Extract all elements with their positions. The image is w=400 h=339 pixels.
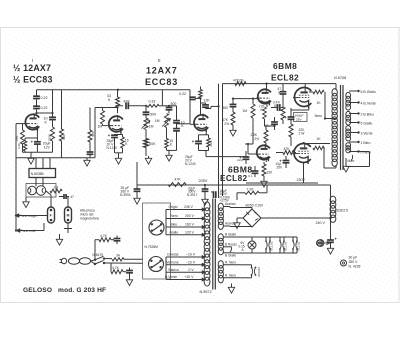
phono jack crystal [65, 207, 72, 223]
svg-text:6BM8: 6BM8 [273, 61, 297, 71]
resistor 2.2K splitter [208, 135, 210, 138]
svg-text:150: 150 [267, 171, 273, 175]
svg-text:Nero: Nero [315, 114, 322, 118]
capacitor 20uF 12V cathode bypass [36, 138, 38, 142]
svg-text:ECC83: ECC83 [257, 267, 261, 277]
wire U4b bottom [303, 163, 305, 184]
ground output stage [263, 176, 265, 179]
potentiometer 1M tone2 [168, 110, 170, 114]
transformer PT secondary heater coil [218, 261, 223, 269]
wire bridge AC bottom [230, 226, 252, 228]
wire bridge AC top [230, 207, 252, 209]
capacitor 16uF 350V [211, 191, 214, 193]
svg-text:4.7K: 4.7K [100, 234, 108, 238]
wire long vertical B [222, 84, 224, 196]
svg-text:4.7K: 4.7K [112, 266, 120, 270]
wire splitter top entry [200, 87, 202, 90]
resistor 220K below cap [52, 120, 54, 127]
svg-text:N.8036B: N.8036B [31, 172, 45, 176]
transformer PT core [212, 199, 214, 290]
svg-text:240 V: 240 V [316, 221, 326, 225]
capacitor 47K ecl [271, 121, 278, 123]
transformer PT secondary HT coil [218, 203, 223, 210]
resistor 2.2K 2% fb [264, 130, 268, 143]
transformer OT core [340, 85, 342, 170]
wire secondary B Giallo 2 [223, 252, 234, 254]
pentode U4a [295, 88, 312, 107]
svg-text:N.8475: N.8475 [93, 253, 104, 257]
resistor 1K grid stopper upper [309, 91, 313, 93]
node bus stage2 [117, 89, 119, 91]
heater ECL82 no1 [265, 237, 267, 241]
ground OT [345, 158, 347, 164]
wire input bus vertical [15, 124, 17, 231]
wire B+ rail 205V [137, 184, 331, 186]
label 30uF 350V N.4228 [341, 260, 347, 266]
capacitor 25uF V2 [195, 140, 202, 142]
wire U3a plate lead [266, 84, 268, 89]
wire bus to 47K cap [267, 83, 306, 85]
ground bridge [236, 221, 238, 223]
svg-text:N.3904: N.3904 [120, 193, 131, 197]
wire heater rail bottom [234, 252, 297, 254]
heater ECL82 no2 [279, 237, 281, 241]
resistor 15K tone2 [166, 128, 168, 139]
ground tone2 [168, 153, 170, 155]
wire rail to choke [330, 185, 332, 198]
svg-text:2%: 2% [224, 122, 229, 126]
transformer OT secondary coil 4 [346, 143, 351, 147]
wire stage2 left column down [94, 108, 96, 158]
wire grid V1b [103, 125, 108, 127]
capacitor filter upper [114, 238, 121, 240]
svg-text:ECL82: ECL82 [271, 73, 299, 83]
svg-text:0.22: 0.22 [179, 92, 186, 96]
svg-text:B.Verde: B.Verde [165, 275, 177, 279]
capacitor 22uF [243, 156, 250, 158]
wire plate node junction [37, 112, 53, 114]
svg-text:47K2%: 47K2% [233, 78, 244, 82]
resistor 150 cathode [262, 164, 266, 176]
svg-text:32Ω/2.5: 32Ω/2.5 [336, 209, 348, 213]
wire OT tap 5 Giallo [349, 122, 359, 124]
wire secondary Arancio 1 [223, 206, 230, 208]
svg-text:B Giallo: B Giallo [225, 254, 236, 258]
svg-text:+10 V: +10 V [185, 275, 195, 279]
wire grid row triode A [233, 98, 258, 100]
svg-text:500: 500 [150, 113, 156, 117]
triode U3a [258, 89, 271, 103]
node triode A plate [265, 83, 267, 85]
capacitor tone second small [176, 123, 178, 128]
wire cathodes join U4a [290, 108, 292, 111]
svg-text:5 B.Giallo: 5 B.Giallo [361, 90, 376, 94]
wire tone box right vertical [189, 90, 191, 124]
wire fono bus magn [16, 215, 48, 217]
svg-text:6BM8: 6BM8 [228, 165, 253, 175]
wire long vertical A [218, 84, 220, 198]
input switch surround box [26, 184, 56, 198]
wire 220 to 230V rail [290, 144, 292, 146]
svg-text:N. 4228: N. 4228 [349, 265, 361, 269]
svg-text:4 B.Verde: 4 B.Verde [361, 101, 376, 105]
svg-text:Bleu: Bleu [171, 223, 178, 227]
wire plate U4a to OT [305, 83, 336, 85]
resistor 16K grid leak [22, 124, 24, 130]
voltage selector box [143, 203, 171, 279]
selector plug upper [149, 220, 164, 235]
mains switch [94, 259, 96, 261]
ground PT [231, 284, 233, 286]
svg-text:½ ECC83: ½ ECC83 [13, 75, 53, 85]
resistor 15K cathode V1b [122, 135, 124, 138]
svg-text:25V: 25V [296, 117, 302, 121]
svg-text:500: 500 [171, 102, 177, 106]
wire secondary Arancio 2 [223, 225, 230, 227]
wire OT tap 0 Nero [349, 151, 359, 153]
label Fono magn [16, 214, 19, 217]
svg-text:1 Bleu: 1 Bleu [361, 141, 371, 145]
wire plate column stage1 [36, 90, 38, 96]
wire fb join [264, 119, 266, 126]
wire tone output to grid [177, 123, 191, 125]
ground ecl input [232, 128, 234, 130]
capacitor 47K coupling [118, 105, 124, 107]
wire tap Nero 200V [166, 218, 202, 220]
mains twisted cord [68, 258, 79, 265]
resistor 0.33 [147, 104, 159, 107]
svg-text:.47: .47 [70, 195, 75, 199]
svg-text:33K: 33K [62, 135, 66, 140]
svg-text:magnetofono: magnetofono [80, 217, 99, 221]
wire 230V node [246, 182, 318, 184]
triode V1a [25, 114, 39, 129]
wire secondary R Nero 2 [223, 277, 240, 279]
wire OT tap 2 B.Bleu [349, 113, 359, 115]
svg-text:B Giallo: B Giallo [225, 233, 236, 237]
ground V1b cathode [118, 156, 120, 158]
svg-text:N.7528M: N.7528M [145, 245, 159, 249]
svg-text:50K: 50K [149, 142, 156, 146]
svg-text:II: II [158, 58, 161, 63]
svg-text:−10 V: −10 V [186, 253, 196, 257]
svg-text:Arancio: Arancio [225, 202, 236, 206]
resistor 4.7K filter lower [111, 270, 123, 274]
capacitor 0.22 upper [33, 95, 40, 97]
switch circle right [36, 186, 45, 195]
svg-text:ECL82: ECL82 [296, 241, 300, 250]
wire plate out to A [206, 108, 212, 110]
svg-text:16K: 16K [15, 136, 19, 141]
svg-text:2.2K: 2.2K [209, 140, 213, 146]
resistor 15K cathode U3a [266, 105, 268, 108]
node 205V [204, 184, 206, 186]
svg-text:25V: 25V [276, 166, 283, 170]
wire secondary B Rosso [223, 246, 232, 248]
wire secondary R Nero 1 [223, 264, 240, 266]
wire secondary B Giallo 1 [223, 236, 234, 238]
resistor 1M grid V1b [101, 111, 105, 125]
svg-text:2 B.Bleu: 2 B.Bleu [361, 112, 374, 116]
bridge rectifier B250 C100 [243, 209, 261, 227]
capacitor 500 second [166, 107, 173, 109]
switch circle left [28, 186, 37, 195]
capacitor 47 input [63, 194, 65, 199]
transformer PT secondary 6V coil [218, 234, 223, 241]
wire OT tap 5 B.Giallo [349, 90, 359, 92]
svg-text:1M: 1M [149, 125, 154, 129]
wires box to circuit [35, 158, 37, 169]
svg-text:47K: 47K [284, 147, 291, 151]
wire tap Bleu 160V [166, 226, 202, 228]
ground input switch [25, 197, 27, 200]
svg-text:ECL82: ECL82 [283, 241, 287, 250]
heater ECC83 preamp [240, 264, 252, 266]
wire OT bottom connection [335, 165, 337, 168]
capacitor 10K tone [169, 105, 177, 107]
wire tap Celeste -10V [166, 256, 202, 258]
svg-text:ECC83: ECC83 [145, 77, 178, 87]
svg-text:N.3917: N.3917 [187, 193, 198, 197]
wire OT tap 1 Bleu [349, 141, 359, 143]
ground jacks [59, 234, 61, 237]
svg-text:R. Nero: R. Nero [225, 260, 236, 264]
svg-text:0.22: 0.22 [41, 106, 48, 110]
svg-text:47K: 47K [175, 178, 182, 182]
capacitor 25uF cathode V1b [120, 132, 122, 135]
wire jacks up [50, 195, 52, 207]
svg-text:22K: 22K [204, 99, 211, 103]
capacitor 47 K screen [282, 84, 284, 92]
potentiometer 1M tone1 [145, 115, 147, 119]
wire OT center tap Nero [325, 118, 336, 120]
wire fono bus crist [16, 230, 44, 232]
wire OT tap 3 Verde [349, 132, 359, 134]
svg-text:M: M [67, 214, 70, 218]
heater ECL82 no3 [292, 237, 294, 241]
pilot lamp 6V 0.15A [251, 237, 253, 241]
svg-text:N.1240: N.1240 [185, 162, 196, 166]
wire feedback loop right [359, 151, 370, 153]
transformer OT secondary coil 3 [346, 126, 351, 131]
svg-text:GELOSO mod. G 203 HF: GELOSO mod. G 203 HF [23, 287, 106, 294]
resistor 33K column right [61, 90, 63, 129]
wire tap BVerde +10V [166, 279, 202, 281]
svg-text:Celeste: Celeste [167, 253, 179, 257]
triode V1b [109, 116, 123, 132]
svg-text:1M: 1M [242, 109, 247, 113]
screw terminal heater [317, 240, 323, 246]
resistor 47K 2pc [231, 112, 235, 125]
resistor 47K 2% upper [235, 82, 246, 86]
svg-text:Grigio: Grigio [169, 205, 178, 209]
fuse 3A [104, 258, 112, 260]
wire to tape socket [67, 223, 69, 233]
svg-text:160 V: 160 V [185, 223, 195, 227]
resistor 4.7K filter upper [99, 238, 111, 242]
capacitor 32uF 350V [204, 185, 206, 189]
svg-text:2%: 2% [254, 137, 259, 141]
svg-text:R. Nero: R. Nero [225, 273, 236, 277]
wire plate U4b to OT [303, 142, 305, 144]
selector plug lower [149, 257, 164, 272]
svg-text:Arancio: Arancio [225, 222, 236, 226]
svg-text:½ 12AX7: ½ 12AX7 [13, 63, 51, 73]
ground 30uF [330, 246, 332, 248]
wire OT tap 4 B.Verde [349, 102, 359, 104]
wire plate to tube [117, 108, 119, 114]
mains plug [61, 258, 66, 263]
resistor splitter top [199, 90, 203, 99]
svg-text:Bianco: Bianco [169, 268, 179, 272]
screw capacitor symbol left [317, 240, 324, 247]
capacitor 22K plate [202, 104, 209, 106]
node plate V1b [116, 106, 118, 108]
ground stage1 [30, 152, 32, 156]
capacitor 160uF 25V [288, 116, 295, 118]
ground mains filter [129, 276, 131, 278]
wire tap Giallo 120V [166, 234, 202, 236]
svg-text:1M: 1M [98, 125, 103, 129]
wire selector risers [165, 210, 167, 235]
svg-text:350 V: 350 V [349, 260, 359, 264]
svg-text:3 Verde: 3 Verde [361, 131, 373, 135]
svg-text:5%: 5% [274, 104, 279, 108]
capacitor 10uF 25V [283, 160, 290, 162]
svg-text:2.2K: 2.2K [17, 143, 21, 149]
triode U3b [257, 145, 270, 159]
transformer OT primary coil [332, 89, 337, 96]
wire tone2 bottom [166, 148, 168, 150]
capacitor 25uF 260V [136, 185, 138, 189]
ground stage2 row [86, 158, 88, 160]
wire B+ bus top left [37, 89, 191, 91]
capacitor 0.1 [252, 170, 259, 172]
wire tap Grigio 245V [166, 209, 202, 211]
wire cathode stage1 [36, 129, 38, 138]
svg-text:Marrone: Marrone [166, 260, 179, 264]
resistor 47K rail [168, 183, 186, 187]
wire bridge minus [237, 217, 243, 219]
resistor 2.2K cathode [24, 138, 26, 141]
svg-text:2 W: 2 W [299, 132, 306, 136]
wire tone col2 top [162, 105, 169, 107]
svg-text:230V: 230V [297, 178, 306, 182]
capacitor 22K bottom [87, 151, 94, 153]
resistor 7.2K bleeder [236, 193, 238, 200]
transformer OT secondary coil 1 [346, 92, 351, 98]
svg-text:500: 500 [222, 106, 228, 110]
resistor 22K branch [89, 108, 91, 131]
svg-text:205V: 205V [199, 179, 208, 183]
wire grid bus top [223, 83, 267, 85]
wire grid stage1 [16, 123, 25, 125]
svg-text:220K: 220K [47, 134, 51, 141]
wire U3b cathode [265, 161, 267, 163]
capacitor 10K branch [52, 90, 54, 117]
resistor 50K tone1 [145, 130, 147, 139]
svg-text:0.22: 0.22 [41, 96, 48, 100]
wire heater rail top [234, 236, 297, 238]
wire U3b grid [248, 153, 256, 155]
transformer PT primary coil [204, 202, 210, 211]
svg-text:12V: 12V [44, 146, 51, 150]
choke 32ohm 2.5 [330, 196, 336, 203]
svg-text:B Rosso: B Rosso [225, 242, 237, 246]
capacitor 0.22 coupling V2 [189, 97, 191, 98]
wire cathode join row [23, 151, 53, 153]
svg-text:B250 C100: B250 C100 [246, 204, 264, 208]
svg-text:Nero: Nero [171, 214, 178, 218]
svg-text:1M: 1M [54, 186, 59, 190]
wire mains lower run [104, 262, 143, 264]
svg-text:N.5572: N.5572 [200, 290, 212, 294]
phono jack magnetic [48, 207, 55, 223]
wire grid V2 [190, 123, 193, 125]
svg-text:0 V: 0 V [189, 268, 195, 272]
wire bottom row stage1 [16, 157, 95, 159]
resistor 1K grid stopper lower [313, 146, 324, 150]
resistor 47K lower [219, 156, 249, 158]
svg-text:1M: 1M [155, 119, 160, 123]
svg-text:22µ: 22µ [237, 158, 242, 162]
transformer OT secondary coil 2 [346, 111, 351, 117]
svg-text:120 V: 120 V [185, 230, 195, 234]
wire plate junction row [95, 107, 118, 109]
svg-text:7.2K: 7.2K [247, 187, 255, 191]
wire cathode join V1b [115, 152, 123, 154]
svg-text:−10 V: −10 V [186, 260, 196, 264]
resistor 47K screen lower [281, 107, 285, 120]
resistor 1M ecl [252, 99, 254, 104]
wire tap Bianco 0V [166, 271, 202, 273]
svg-text:N.1240: N.1240 [107, 146, 118, 150]
svg-text:N.5708: N.5708 [334, 76, 346, 80]
svg-text:ECL82: ECL82 [220, 174, 248, 183]
pentode U4b [294, 144, 311, 163]
wire tone box top [161, 90, 163, 106]
label Fono crist [17, 229, 20, 232]
svg-text:12AX7: 12AX7 [146, 66, 178, 76]
capacitor 500 ecl [232, 99, 234, 104]
wire tap Marrone -10V [166, 264, 202, 266]
wire 240V node [261, 217, 331, 219]
wire cathode V2 [205, 132, 207, 135]
svg-text:30 µF: 30 µF [349, 256, 358, 260]
resistor 220 2W [289, 124, 293, 137]
svg-text:5 Giallo: 5 Giallo [361, 121, 373, 125]
capacitor 500 first [143, 111, 150, 113]
wire splitter bottom [199, 150, 209, 152]
capacitor 30uF 350V main filter [327, 239, 334, 241]
ground tone1 [145, 148, 147, 157]
svg-text:0.1: 0.1 [248, 174, 253, 178]
preamp box N.8036B [29, 169, 56, 178]
capacitor 0.22 lower [33, 105, 40, 107]
svg-text:245 V: 245 V [184, 205, 194, 209]
wire pentode U4a top [304, 84, 306, 88]
capacitor filter lower [126, 270, 133, 272]
svg-text:47K: 47K [124, 99, 131, 103]
resistor 1M input [50, 189, 62, 193]
svg-text:ECL82: ECL82 [269, 241, 273, 250]
svg-text:F: F [50, 214, 52, 218]
svg-text:0.33: 0.33 [149, 100, 156, 104]
capacitor 0.47 5% [277, 104, 279, 111]
wire tone col1 entry [145, 106, 147, 112]
triode V2 [194, 115, 208, 131]
resistor 33K plate load V1b [117, 90, 119, 97]
